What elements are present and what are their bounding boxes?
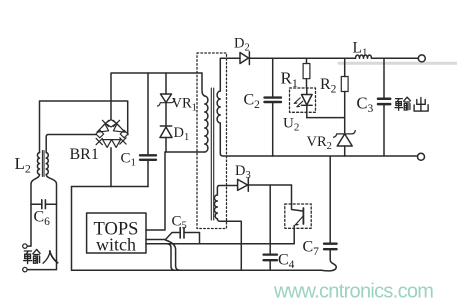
svg-text:U2: U2 <box>283 116 299 134</box>
hanzi 输入 (input) <box>24 250 58 264</box>
scan artifact streaks <box>339 62 457 65</box>
svg-text:C4: C4 <box>278 252 295 272</box>
transformer secondary winding top <box>217 91 220 123</box>
LED of U2 <box>306 88 308 95</box>
bridge rectifier BR1 <box>96 120 128 148</box>
optocoupler U2 LED dashed box <box>290 88 316 112</box>
L2 core lines <box>42 151 44 177</box>
wire: bias bottom down to bottom rail <box>217 219 241 270</box>
svg-text:D2: D2 <box>234 36 250 54</box>
capacitor C5 <box>180 228 184 239</box>
LED arrows <box>294 98 300 104</box>
inductor L1 <box>356 55 372 58</box>
TOPSwitch pin3 / common wire <box>146 243 294 245</box>
resistor R1 <box>306 58 308 63</box>
wire: top-left loop from L2 left to BR1 right vertex <box>40 101 129 153</box>
wire: BR1 top vertex up and right to primary top <box>111 73 202 120</box>
TOPSwitch U1 box <box>87 213 146 253</box>
svg-text:www.cntronics.com: www.cntronics.com <box>273 281 433 303</box>
capacitor C3 <box>383 58 385 97</box>
capacitor C4 <box>264 255 278 261</box>
svg-text:VR2: VR2 <box>307 134 332 152</box>
phototransistor <box>292 185 303 211</box>
svg-text:L2: L2 <box>15 154 31 176</box>
wire: drain riser down to TOPSwitch pin1 <box>146 152 165 230</box>
svg-text:witch: witch <box>96 235 136 255</box>
svg-text:C3: C3 <box>357 94 374 116</box>
transformer T1 dashed box <box>197 53 227 229</box>
zener VR2 <box>344 118 346 134</box>
wire: top output rail <box>249 57 356 59</box>
inductor L2 right winding <box>46 153 48 175</box>
output terminal minus <box>418 153 425 160</box>
svg-text:C7: C7 <box>303 239 320 259</box>
wire: outer left rail down and bottom rail <box>72 187 323 271</box>
svg-text:VR1: VR1 <box>172 96 197 114</box>
phototransistor of U2 dashed box <box>285 204 311 228</box>
TOPSwitch pin2 to C5 <box>146 233 179 240</box>
wire: BR1 bottom vertex down to primary minus rail <box>110 148 112 187</box>
svg-text:BR1: BR1 <box>70 146 99 163</box>
resistor R2 <box>344 58 346 76</box>
wire: drain node D1 to primary bottom <box>165 151 205 153</box>
input terminal top <box>23 244 27 248</box>
svg-text:R1: R1 <box>281 69 298 91</box>
transformer bias winding <box>214 195 217 219</box>
capacitor C6 <box>31 203 41 205</box>
diode D1 <box>165 103 167 127</box>
wire: secondary bottom to output minus rail <box>220 123 417 156</box>
wire: D3 cathode to C4 riser and phototransistor <box>248 184 291 186</box>
wire: C4 riser <box>269 185 271 254</box>
svg-text:R2: R2 <box>320 76 337 96</box>
wire: curve from common wire down to bottom rail <box>167 244 176 270</box>
wire: feedback node U2 to R2/VR2 <box>307 117 345 119</box>
wire: primary minus rail <box>72 186 149 188</box>
zener VR1 <box>165 73 167 94</box>
capacitor C1 <box>147 73 149 154</box>
svg-text:C1: C1 <box>121 151 137 169</box>
hanzi 输出 (output) <box>395 97 428 111</box>
transformer core <box>211 88 213 220</box>
diode D2 <box>240 53 249 64</box>
wire: L2 right bottom flare down to input bottom terminal <box>28 175 57 270</box>
capacitor C7 <box>329 156 331 243</box>
wire: L2 left bottom flare down to input top terminal <box>28 175 40 247</box>
wire: secondary top to D2 <box>220 58 240 91</box>
wire: L1 to output plus terminal <box>372 57 419 59</box>
wire: bias top to D3 <box>217 186 237 196</box>
svg-text:C2: C2 <box>244 92 261 112</box>
svg-text:D1: D1 <box>174 125 190 143</box>
output terminal plus <box>418 55 425 62</box>
svg-text:L1: L1 <box>353 40 368 59</box>
inductor L2 (common-mode choke) left winding <box>37 153 39 175</box>
input terminal bottom <box>23 267 27 271</box>
transformer primary winding <box>202 73 205 96</box>
svg-text:D3: D3 <box>235 163 251 181</box>
svg-text:C6: C6 <box>34 209 51 229</box>
wire: L2 right top to BR1 left vertex <box>46 135 96 153</box>
svg-text:C5: C5 <box>172 214 187 232</box>
capacitor C2 <box>272 58 274 96</box>
diode D3 <box>238 179 248 190</box>
wire: second curve from pin2 area down to bottom rail <box>166 240 181 270</box>
